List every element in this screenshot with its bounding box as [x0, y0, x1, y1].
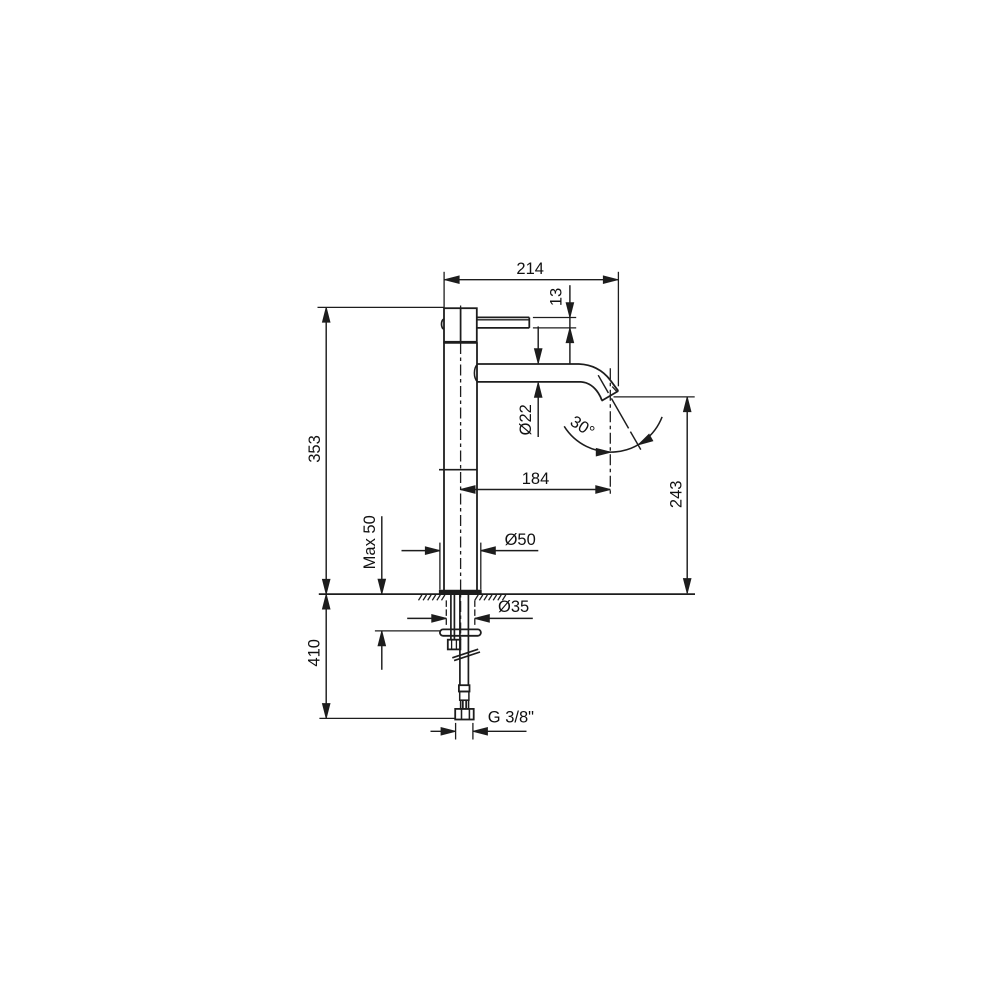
svg-text:184: 184: [522, 470, 550, 488]
svg-text:353: 353: [306, 435, 324, 463]
svg-text:Ø22: Ø22: [517, 404, 535, 435]
svg-text:410: 410: [305, 639, 323, 667]
svg-text:214: 214: [516, 260, 544, 278]
svg-text:30°: 30°: [567, 412, 598, 441]
svg-text:Max 50: Max 50: [361, 515, 379, 569]
svg-text:243: 243: [667, 481, 685, 509]
svg-text:G 3/8": G 3/8": [488, 709, 534, 727]
svg-text:Ø50: Ø50: [505, 531, 536, 549]
svg-text:Ø35: Ø35: [498, 598, 529, 616]
svg-text:13: 13: [547, 288, 565, 306]
